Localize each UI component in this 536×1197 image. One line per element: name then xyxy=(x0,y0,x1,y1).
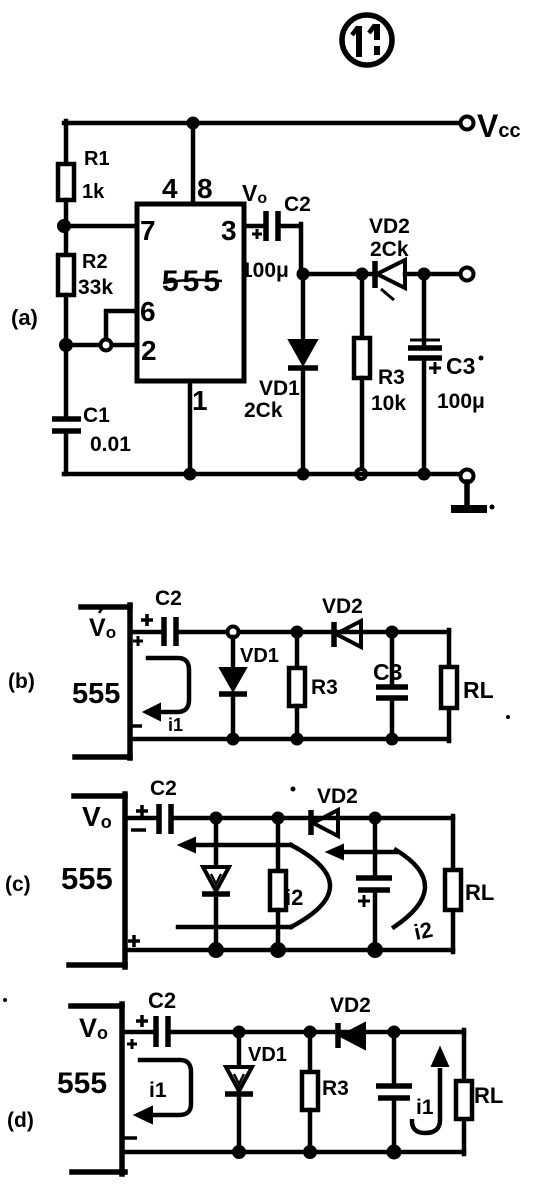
555 block (c) xyxy=(69,794,125,967)
capacitor C3 (c) xyxy=(356,878,392,907)
svg-text:C2: C2 xyxy=(155,587,182,610)
junction R3 bottom (b) xyxy=(291,733,304,746)
wire C3 bottom xyxy=(422,358,427,474)
junction VD1 bottom (b) xyxy=(227,733,240,746)
wire left branch upper xyxy=(64,121,69,164)
wire top rail (d) xyxy=(170,1030,464,1035)
wire C3 bottom (d) xyxy=(392,1098,397,1152)
capacitor C2 (c) xyxy=(131,804,171,834)
junction C3 top (c) xyxy=(369,812,382,825)
svg-text:6: 6 xyxy=(140,296,156,327)
svg-text:R3: R3 xyxy=(311,676,338,699)
svg-text:VD1: VD1 xyxy=(240,645,279,667)
wire R3 bottom (d) xyxy=(308,1110,313,1152)
wire to pin 7 xyxy=(64,224,137,229)
current hook arrow i1 (d) xyxy=(412,1048,448,1133)
diode VD1 (b) xyxy=(219,668,247,694)
wire node row left xyxy=(301,272,375,277)
junction circle pin6/pin2 xyxy=(101,340,112,351)
op-amp/timer U1 555 xyxy=(137,204,244,381)
junction top rail to pin 8 xyxy=(187,117,200,130)
svg-text:1: 1 xyxy=(192,385,208,416)
junction VD1 top (d) xyxy=(233,1026,246,1039)
capacitor C3 (d) xyxy=(376,1086,412,1098)
junction C3 bottom rail xyxy=(418,468,431,481)
wire top rail (c) xyxy=(173,816,453,821)
wire C3 top xyxy=(422,274,427,345)
svg-text:8: 8 xyxy=(197,173,213,204)
wire R3 top (d) xyxy=(308,1032,313,1072)
diode VD2 xyxy=(375,260,405,300)
wire VD1 top (b) xyxy=(231,637,236,668)
wire R top (c) xyxy=(276,818,281,871)
svg-text:0.01: 0.01 xyxy=(90,433,131,456)
svg-text:VD2: VD2 xyxy=(369,215,410,238)
wire C2 to node row xyxy=(280,224,301,274)
diode VD2 (c) xyxy=(311,810,338,836)
diode VD1 xyxy=(288,340,318,368)
junction C3 bottom (c) xyxy=(367,942,383,958)
wire R bottom (c) xyxy=(276,910,281,950)
svg-text:C2: C2 xyxy=(284,193,311,216)
resistor R1 xyxy=(58,164,74,200)
wire to C2 (b) xyxy=(130,630,161,635)
capacitor C3 (b) xyxy=(376,687,408,698)
svg-text:RL: RL xyxy=(465,880,494,905)
svg-text:(d): (d) xyxy=(7,1109,34,1132)
wire to C2 (d) xyxy=(122,1030,153,1035)
svg-text:VD1: VD1 xyxy=(259,377,300,400)
svg-text:33k: 33k xyxy=(78,276,113,299)
wire VD1 bottom xyxy=(301,368,306,474)
svg-text:555: 555 xyxy=(57,1067,107,1100)
node junction pin2 xyxy=(59,338,73,352)
wire R1 to node xyxy=(64,200,69,255)
svg-text:100μ: 100μ xyxy=(437,390,485,413)
stray tick above Vo (b) xyxy=(99,606,104,613)
svg-text:i1: i1 xyxy=(168,715,183,735)
resistor R2 xyxy=(58,255,74,295)
svg-text:4: 4 xyxy=(162,173,178,204)
stray dot (b) xyxy=(506,715,510,719)
wire node to C1 xyxy=(64,345,69,417)
wire top rail (b) xyxy=(178,630,449,635)
svg-text:R1: R1 xyxy=(84,148,110,170)
junction circle R3 bottom rail xyxy=(356,469,366,479)
junction C3 bottom (d) xyxy=(387,1145,402,1160)
svg-text:555: 555 xyxy=(72,678,120,710)
wire bottom rail (b) xyxy=(130,737,449,742)
stray dot VD2 (c) xyxy=(291,787,296,792)
wire pin 6 loop xyxy=(106,311,137,340)
junction VD1 bottom (d) xyxy=(232,1145,246,1159)
svg-text:100μ: 100μ xyxy=(241,259,289,282)
svg-text:(b): (b) xyxy=(8,670,35,693)
svg-text:VD1: VD1 xyxy=(248,1044,287,1066)
svg-text:R3: R3 xyxy=(378,366,405,389)
svg-text:RL: RL xyxy=(463,677,494,703)
current arrow left loop (c) xyxy=(178,838,330,927)
svg-text:(a): (a) xyxy=(11,305,38,330)
junction C3 top (d) xyxy=(388,1026,401,1039)
wire pin 8 xyxy=(191,123,196,204)
junction R bottom (c) xyxy=(270,942,286,958)
capacitor C2 (b) xyxy=(133,614,176,646)
plus mark (c) xyxy=(128,935,140,947)
capacitor C3 xyxy=(408,340,442,374)
555 block (d) xyxy=(71,1004,125,1174)
diode VD2 (d) xyxy=(338,1023,365,1049)
wire VD1 top (c) xyxy=(214,818,219,866)
svg-text:VD2: VD2 xyxy=(317,785,358,808)
terminal output xyxy=(461,268,474,281)
junction pin1 bottom rail xyxy=(184,468,197,481)
wire C3 top (b) xyxy=(390,632,395,685)
svg-text:VD2: VD2 xyxy=(330,994,371,1017)
wire bottom rail (c) xyxy=(125,948,453,953)
junction R3 bottom (d) xyxy=(303,1145,317,1159)
resistor (c) xyxy=(270,871,286,910)
wire bottom rail xyxy=(64,472,461,477)
svg-text:C2: C2 xyxy=(150,777,177,800)
svg-text:10k: 10k xyxy=(371,392,406,415)
capacitor C1 xyxy=(52,419,81,431)
junction C3 top (b) xyxy=(386,626,399,639)
svg-text:2: 2 xyxy=(141,335,157,366)
minus mark (b) xyxy=(131,724,142,728)
current loop i1 (d) xyxy=(135,1060,191,1123)
junction R3 top xyxy=(356,268,369,281)
wire to C2 (c) xyxy=(125,816,156,821)
svg-text:i1: i1 xyxy=(149,1079,167,1102)
svg-text:555: 555 xyxy=(61,861,113,896)
diode VD2 (b) xyxy=(334,621,361,647)
resistor R3 (b) xyxy=(289,668,305,706)
terminal ground node xyxy=(461,470,474,483)
svg-text:1k: 1k xyxy=(82,181,105,203)
svg-text:(c): (c) xyxy=(5,873,31,896)
wire VD1 bottom (c) xyxy=(214,894,219,950)
wire node row right xyxy=(405,272,461,277)
wire to pin 2 xyxy=(66,343,137,348)
junction R3 top (b) xyxy=(291,626,304,639)
wire C3 bottom (b) xyxy=(390,698,395,739)
junction C2/VD1 xyxy=(297,268,310,281)
svg-text:VD2: VD2 xyxy=(322,595,363,618)
stray speck left margin (d) xyxy=(3,998,7,1002)
wire top Vcc rail xyxy=(64,121,461,126)
wire R3 bottom (b) xyxy=(295,706,300,739)
junction VD1 top (c) xyxy=(210,812,223,825)
junction VD1 bottom (c) xyxy=(208,942,224,958)
resistor RL (d) xyxy=(456,1081,472,1119)
svg-text:2Ck: 2Ck xyxy=(370,238,409,261)
wire VD1 bottom (b) xyxy=(231,694,236,739)
wire pin 3 output xyxy=(244,224,263,229)
capacitor C2 xyxy=(252,211,278,241)
junction R3 top (d) xyxy=(304,1026,317,1039)
svg-text:RL: RL xyxy=(474,1083,503,1108)
junction C3 bottom (b) xyxy=(386,733,399,746)
node junction pin7 xyxy=(57,219,71,233)
current loop i1 (b) xyxy=(144,658,189,720)
svg-text:C3: C3 xyxy=(373,659,402,685)
wire R3 bottom xyxy=(360,378,365,474)
wire R3 top xyxy=(360,274,365,338)
wire C3 top (c) xyxy=(373,818,378,877)
wire C1 to bottom rail xyxy=(64,431,69,474)
junction circle VD1 top (b) xyxy=(228,627,239,638)
diode VD1 (c) xyxy=(202,867,230,894)
wire RL column (b) xyxy=(447,630,452,741)
svg-text:i1: i1 xyxy=(416,1096,434,1119)
wire VD1 top (d) xyxy=(237,1032,242,1066)
resistor RL (c) xyxy=(445,870,461,910)
wire VD1 bottom (d) xyxy=(237,1094,242,1152)
wire RL column (d) xyxy=(462,1030,467,1154)
circled figure number 11 xyxy=(342,15,392,65)
resistor R3 (d) xyxy=(302,1072,318,1110)
minus mark (d) xyxy=(123,1136,137,1140)
svg-text:2Ck: 2Ck xyxy=(244,399,283,422)
svg-text:C1: C1 xyxy=(83,404,110,427)
capacitor C2 (d) xyxy=(127,1015,168,1049)
current arrow right loop (c) xyxy=(327,845,425,927)
555 block (b) xyxy=(75,605,130,758)
wire R2 to node xyxy=(64,295,69,345)
svg-text:C3: C3 xyxy=(446,353,475,379)
resistor RL (b) xyxy=(441,667,457,708)
wire C3 bottom (c) xyxy=(373,890,378,950)
junction R top (c) xyxy=(272,812,285,825)
svg-text:3: 3 xyxy=(221,215,237,246)
wire C3 top (d) xyxy=(392,1032,397,1085)
wire pin 1 xyxy=(188,381,193,474)
svg-text:i2: i2 xyxy=(285,885,303,910)
svg-text:C2: C2 xyxy=(148,988,176,1013)
svg-text:R2: R2 xyxy=(82,251,108,273)
terminal Vcc xyxy=(461,117,474,130)
diode VD1 (d) xyxy=(225,1067,253,1094)
svg-text:7: 7 xyxy=(140,215,156,246)
junction C3 top xyxy=(418,268,431,281)
ground xyxy=(451,482,495,510)
wire VD1 top xyxy=(301,274,306,339)
junction VD1 bottom rail xyxy=(297,468,310,481)
resistor R3 xyxy=(354,338,370,378)
wire bottom rail (d) xyxy=(122,1150,464,1155)
wire RL column (c) xyxy=(451,816,456,952)
svg-text:R3: R3 xyxy=(322,1077,349,1100)
wire R3 top (b) xyxy=(295,632,300,668)
